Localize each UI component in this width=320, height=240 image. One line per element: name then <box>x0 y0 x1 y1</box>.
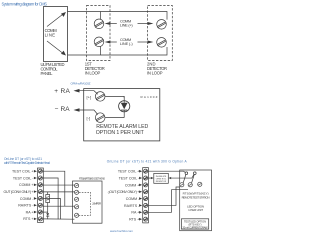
arrow into resistor right <box>169 177 172 179</box>
head terminal H4 <box>75 205 79 209</box>
wire ra/rts- riser <box>148 187 179 205</box>
terminal RA + <box>95 92 105 102</box>
svg-text:RA100Z: RA100Z <box>141 95 158 99</box>
jumper dashed link <box>79 192 91 215</box>
svg-text:RA +: RA + <box>26 210 34 214</box>
wire test coil + run <box>43 171 65 206</box>
svg-text:LINE: LINE <box>45 32 56 37</box>
svg-text:REMOTE TEST STATION: REMOTE TEST STATION <box>182 195 210 199</box>
svg-text:COMM +: COMM + <box>19 183 33 187</box>
svg-text:with RT Remote Test Capable De: with RT Remote Test Capable Detector Hea… <box>4 161 50 165</box>
svg-text:www.hochiki.com: www.hochiki.com <box>110 229 134 233</box>
in-line resistor assembly <box>154 173 169 183</box>
svg-text:System wiring diagram for CMS: System wiring diagram for CMS <box>2 1 48 6</box>
svg-text:TEST COIL +: TEST COIL + <box>12 170 33 174</box>
annotation: comm line (-) leader arrows <box>105 41 111 44</box>
svg-text:LINE (+): LINE (+) <box>120 22 134 27</box>
left terminal strip TB1 <box>38 168 44 222</box>
svg-text:RTS(W)/RTS(KEY) DET HEAD: RTS(W)/RTS(KEY) DET HEAD <box>79 178 105 181</box>
svg-text:TEST COIL -: TEST COIL - <box>119 176 140 180</box>
wire test coil + to switch <box>148 171 185 172</box>
svg-text:RA/RTS -: RA/RTS - <box>124 204 140 208</box>
wire: rise to detector1 - terminal <box>100 46 102 55</box>
terminal: det2 + <box>157 20 167 30</box>
svg-text:− RA: − RA <box>55 106 71 113</box>
remote alarm LED module box <box>84 89 160 141</box>
svg-text:RESISTOR: RESISTOR <box>156 181 167 183</box>
arrow to top-right corner <box>47 15 63 27</box>
wire test coil - run <box>43 178 58 219</box>
wire comm- run <box>43 199 60 220</box>
head terminal H2 <box>75 190 79 194</box>
resistor R1 <box>47 192 49 195</box>
wire: comm- bottom run <box>68 47 168 55</box>
svg-text:PANEL: PANEL <box>41 71 54 76</box>
svg-text:COMM -: COMM - <box>20 197 34 201</box>
svg-text:20 mA CURRENT DRAW: 20 mA CURRENT DRAW <box>183 225 209 229</box>
svg-text:OUT (CONV ONLY) +: OUT (CONV ONLY) + <box>109 190 139 194</box>
wire comm+ to head <box>43 184 74 186</box>
svg-text:[-]: [-] <box>87 116 91 121</box>
svg-text:OnLine DT (or xST) to x421: OnLine DT (or xST) to x421 <box>4 157 42 161</box>
svg-text:RTS +: RTS + <box>129 218 139 222</box>
svg-text:RA/RTS -: RA/RTS - <box>18 204 34 208</box>
arrow to bottom-right corner <box>47 41 63 53</box>
svg-text:OPM w/RA100Z: OPM w/RA100Z <box>71 81 91 85</box>
svg-text:OnLine DT (or xST) to 421 with: OnLine DT (or xST) to 421 with 300 G Opt… <box>107 159 188 163</box>
wire test coil - stub <box>148 177 151 179</box>
terminal T3 <box>198 182 202 186</box>
LED D1 <box>119 101 130 112</box>
wire: drop to detector1 + terminal <box>100 12 102 20</box>
diode D2 <box>46 213 49 216</box>
annotation: comm line (+) leader arrows <box>105 22 111 25</box>
svg-text:JUMPER: JUMPER <box>92 202 101 206</box>
svg-text:TEST COIL +: TEST COIL + <box>118 170 139 174</box>
svg-text:RTS +: RTS + <box>23 217 33 221</box>
terminal RA - <box>95 113 105 123</box>
head terminal H5 <box>75 213 79 217</box>
arrow into resistor left <box>151 177 154 179</box>
wire LED to terminal- <box>105 117 124 119</box>
svg-text:TEST COIL -: TEST COIL - <box>13 176 34 180</box>
terminal: det1 - <box>94 37 104 47</box>
detector head box <box>73 181 103 223</box>
note box <box>181 219 208 229</box>
svg-text:LINE (-): LINE (-) <box>120 41 134 46</box>
control panel box <box>44 7 68 62</box>
remote test station box <box>180 170 212 231</box>
svg-text:COMM +: COMM + <box>125 183 139 187</box>
svg-text:OPTION 1 PER UNIT: OPTION 1 PER UNIT <box>96 130 145 136</box>
right terminal strip TB2 <box>143 168 149 223</box>
head terminal H1 <box>75 184 79 188</box>
svg-text:[+]: [+] <box>87 94 92 99</box>
svg-text:IN LOOP: IN LOOP <box>85 71 101 76</box>
svg-text:COMM -: COMM - <box>126 197 140 201</box>
svg-text:+ RA: + RA <box>54 88 70 95</box>
detector 2 dashed box <box>148 6 173 61</box>
wire ra/rts- run <box>43 205 74 207</box>
terminal: det2 - <box>157 38 167 48</box>
wire rts+ run <box>43 218 74 220</box>
wire terminal+ to LED <box>105 96 124 98</box>
wire ra+ stub <box>43 211 47 213</box>
svg-text:1 PER UNIT: 1 PER UNIT <box>188 208 203 212</box>
wire ra+ riser <box>148 190 188 213</box>
head terminal H3 <box>75 197 79 201</box>
terminal: det1 + <box>94 19 104 29</box>
detector 1 dashed box <box>87 6 111 61</box>
wire out+ to head <box>43 191 74 193</box>
switch SW2 <box>188 183 192 187</box>
switch SW1 <box>180 183 184 187</box>
svg-text:OUT (CONV ONLY) +: OUT (CONV ONLY) + <box>4 190 34 194</box>
svg-text:IN LOOP: IN LOOP <box>147 71 163 76</box>
wire: comm+ top run <box>68 12 168 20</box>
svg-text:RA +: RA + <box>131 211 139 215</box>
wire to switch2 <box>171 175 194 179</box>
